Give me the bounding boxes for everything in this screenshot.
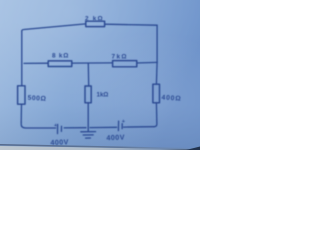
paper background [0, 0, 200, 150]
svg-text:8 kΩ: 8 kΩ [52, 53, 69, 60]
resistor R6 400Ω (right branch) [153, 84, 160, 103]
battery B2 negative plate [121, 124, 123, 129]
paper bottom edge strip [0, 146, 200, 150]
wire: right vertical upper [156, 25, 158, 62]
svg-text:7kΩ: 7kΩ [112, 53, 128, 60]
wire: R1 to top-right corner [105, 24, 157, 25]
paper edge shadow line [0, 145, 200, 150]
battery B1 positive plate [57, 124, 59, 133]
wire: right vertical to R6 [155, 62, 158, 84]
resistor R5 1kΩ (middle branch) [85, 86, 91, 103]
ground symbol bar 2 [83, 134, 93, 136]
resistor R4 500Ω (left branch) [18, 86, 25, 104]
wire: top-left corner to R1 [22, 24, 86, 31]
wire: bottom right segment to battery B2 [124, 126, 154, 128]
wire: middle row right segment [137, 61, 157, 64]
dark corner wedge [186, 147, 200, 151]
wire: middle branch lower to ground [87, 103, 89, 131]
svg-text:2 kΩ: 2 kΩ [85, 16, 104, 23]
wire: ground node to battery B1 [64, 127, 86, 129]
wire: left vertical lower [20, 104, 22, 122]
svg-text:400V: 400V [50, 137, 69, 147]
wire: left vertical upper [21, 31, 23, 86]
svg-text:500Ω: 500Ω [27, 95, 46, 103]
resistor R1 2kΩ (top) [86, 21, 105, 26]
wire: middle branch from node A down to R5 [87, 63, 89, 86]
battery B1 negative plate [60, 126, 62, 131]
wire: R6 to bottom-right corner [154, 103, 157, 127]
wire: middle row left segment [24, 62, 48, 64]
svg-text:400Ω: 400Ω [161, 94, 181, 102]
wire: battery B2 to ground node [90, 126, 117, 128]
svg-text:400V: 400V [106, 133, 125, 143]
ground symbol bar 3 [86, 137, 91, 139]
wire: middle row centre segment (node A tap) [72, 62, 113, 64]
resistor R3 7kΩ (middle row right) [113, 61, 137, 67]
wire: battery B1 to bottom-left corner [21, 122, 55, 128]
resistor R2 8kΩ (middle row left) [48, 61, 72, 67]
ground symbol bar 1 [81, 131, 96, 133]
battery B2 positive plate [117, 121, 119, 130]
svg-text:1kΩ: 1kΩ [97, 91, 109, 98]
